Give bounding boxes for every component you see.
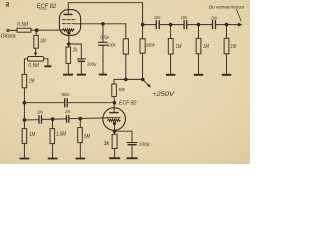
svg-text:5M: 5M xyxy=(84,134,90,140)
wire cathode to 2k xyxy=(67,44,69,47)
svg-text:0.5M: 0.5M xyxy=(17,22,29,28)
svg-text:100μ: 100μ xyxy=(139,142,150,147)
svg-text:10n: 10n xyxy=(154,15,161,20)
label 1M (R4) xyxy=(29,132,35,138)
label 1M (R10) xyxy=(176,44,182,50)
resistor R4 1M lower xyxy=(22,129,27,144)
supply rail +250V xyxy=(114,78,143,80)
svg-text:10n: 10n xyxy=(181,15,188,20)
label ECF 82 (tube V1) xyxy=(37,4,57,10)
wire tone line between C2 and C3 xyxy=(42,118,66,121)
svg-text:1M: 1M xyxy=(176,44,182,50)
wire input to R1 xyxy=(9,29,17,31)
wire rail left end down to 50k xyxy=(113,79,115,84)
paper background xyxy=(0,0,250,164)
label 300k (R9) xyxy=(146,43,155,49)
label 0.5M (R1) xyxy=(17,22,29,28)
label 1M (R12) xyxy=(231,44,237,50)
anode plate V2 xyxy=(109,112,118,113)
resistor R7 2k cathode V1 xyxy=(66,47,71,63)
wire tone line to V2 grid xyxy=(70,117,108,120)
node ladder 1 xyxy=(169,23,172,26)
label ECF 82 (tube V2) xyxy=(119,101,137,107)
underline under ECF 82 label xyxy=(39,8,47,10)
wire ladder line xyxy=(143,24,156,26)
resistor R5 1.5M xyxy=(52,119,54,129)
label 0.5M (P1) xyxy=(28,63,39,69)
input terminal (guitar jack) xyxy=(7,29,9,31)
node cathode V1 xyxy=(68,43,71,46)
wire 50n line right part to V2 anode node xyxy=(68,102,115,104)
label 100u (C9) xyxy=(139,142,150,147)
cathode zigzag V2 xyxy=(108,119,121,121)
suppressor grid V1 (dashed) xyxy=(62,23,75,25)
wire 300k leads xyxy=(142,25,144,39)
resistor R1 0.5M series input xyxy=(17,28,31,32)
node cathode V2 xyxy=(113,130,116,133)
capacitor C9 100u cathode V2 xyxy=(127,142,137,144)
node rail 600k xyxy=(124,78,127,81)
wire 50k to anode node xyxy=(113,97,115,103)
svg-text:Gitara: Gitara xyxy=(1,34,16,40)
wire tone line (grid of V2) xyxy=(24,119,38,121)
resistor R3 1M (pot chain) xyxy=(22,74,27,88)
cathode lead V2 xyxy=(114,124,116,131)
resistor R14 3k cathode V2 xyxy=(114,131,116,134)
tube V2 ECF82 triode envelope xyxy=(103,108,126,131)
label +250V xyxy=(152,92,175,98)
label 600k (R8) xyxy=(107,43,116,49)
capacitor C6 10n xyxy=(155,21,157,29)
svg-text:+250V: +250V xyxy=(152,92,175,98)
svg-text:ECF 82: ECF 82 xyxy=(119,101,137,107)
wire cathode branch to 100u xyxy=(115,131,133,142)
label 100u (C4) xyxy=(87,62,97,67)
ground (3k) xyxy=(109,157,120,159)
svg-text:2n: 2n xyxy=(64,109,70,114)
svg-text:1M: 1M xyxy=(29,132,35,138)
capacitor C2 10n (tone) xyxy=(38,116,40,124)
wire screen V1 to 600k corner xyxy=(75,23,126,25)
resistor R13 50k anode load V2 xyxy=(112,84,117,97)
wire 600k to rail xyxy=(125,54,127,79)
label 50k (R13) xyxy=(118,87,125,93)
wire node to R2 xyxy=(35,30,37,35)
wire 100u to ground xyxy=(131,145,133,157)
svg-text:a: a xyxy=(6,0,10,9)
wire 3k to ground xyxy=(114,149,116,158)
node 5M junction xyxy=(79,117,82,120)
label 10n (C8) xyxy=(211,15,218,20)
label 5M (R6) xyxy=(84,134,90,140)
wire pot right terminal to ground xyxy=(44,59,48,66)
wiper arrow from R2 down to potentiometer xyxy=(35,48,37,53)
svg-text:50k: 50k xyxy=(118,87,125,93)
ground (C5) xyxy=(99,74,107,76)
label 1M (R11) xyxy=(203,44,209,50)
node 1.5M junction xyxy=(51,118,54,121)
node tone line xyxy=(23,119,26,122)
cathode lead V1 xyxy=(68,34,70,45)
ground (C4) xyxy=(77,74,86,76)
capacitor C3 2n xyxy=(66,116,68,123)
ground (pot) xyxy=(44,65,51,67)
node ladder 3 xyxy=(225,23,228,26)
ground (R10) xyxy=(166,74,175,76)
ground (2k) xyxy=(63,74,73,76)
ground (R4) xyxy=(20,158,30,160)
label Gitara xyxy=(1,34,16,40)
wire 100u to ground xyxy=(80,62,82,74)
label 10n (C6) xyxy=(154,15,161,20)
svg-text:1M: 1M xyxy=(203,44,209,50)
label Do wzmacniacza xyxy=(209,5,245,11)
wire ladder seg2 xyxy=(160,24,184,26)
cathode dot V2 xyxy=(113,122,115,124)
label 2k (R7) xyxy=(72,48,78,54)
svg-text:10n: 10n xyxy=(37,110,43,115)
resistor R11 1M ladder xyxy=(198,25,200,39)
wire 50n feedback line left part xyxy=(24,102,64,104)
node anode V2 xyxy=(113,101,116,104)
svg-text:100μ: 100μ xyxy=(87,62,97,67)
node grid junction xyxy=(35,29,38,32)
node ladder start xyxy=(141,23,144,26)
svg-text:1M: 1M xyxy=(29,78,35,84)
svg-text:600k: 600k xyxy=(107,43,116,49)
capacitor C7 10n xyxy=(183,21,185,29)
label 3k (R14) xyxy=(104,141,110,147)
control grid V1 zigzag xyxy=(62,29,74,32)
anode lead V1 up xyxy=(67,3,69,14)
label 0.5u (C5) xyxy=(100,34,109,39)
svg-text:1,5M: 1,5M xyxy=(56,132,67,138)
anode plate V1 xyxy=(64,14,73,16)
capacitor C5 0.5u screen decoupling xyxy=(99,41,107,43)
resistor R10 1M ladder xyxy=(170,25,172,39)
control grid V2 (dashed) xyxy=(107,117,120,119)
svg-text:300k: 300k xyxy=(146,43,155,49)
label 10n (tone) xyxy=(37,110,43,115)
wire pot left terminal down xyxy=(24,59,27,75)
cathode dot V1 xyxy=(68,32,70,34)
svg-text:1M: 1M xyxy=(231,44,237,50)
capacitor C1 50n xyxy=(64,99,66,107)
capacitor C8 10n xyxy=(212,21,214,29)
output arrow head xyxy=(238,23,242,27)
svg-text:3k: 3k xyxy=(104,141,110,147)
resistor R8 600k screen feed xyxy=(123,39,128,54)
label 2M (R2) xyxy=(39,39,45,45)
node ladder 2 xyxy=(197,23,200,26)
svg-text:2k: 2k xyxy=(72,48,78,54)
wire R1 to grid of V1 xyxy=(31,29,62,31)
label 10n (C7) xyxy=(181,15,188,20)
node rail 300k / supply entry xyxy=(141,78,144,81)
node feedback (50n line) xyxy=(23,101,26,104)
wire R4 to ground xyxy=(23,144,25,158)
wire ladder seg4 to output arrow xyxy=(216,24,239,26)
node screen decoupling xyxy=(102,22,105,25)
resistor R12 1M ladder xyxy=(226,25,228,39)
svg-text:10n: 10n xyxy=(211,15,218,20)
wire R5 to ground xyxy=(52,144,54,158)
label 1,5M (R5) xyxy=(56,132,67,138)
ground (R12) xyxy=(222,74,231,76)
ground (R5) xyxy=(48,158,58,160)
svg-text:0.5M: 0.5M xyxy=(28,63,39,69)
callout line from label to output wire xyxy=(236,9,241,21)
svg-text:0.5μ: 0.5μ xyxy=(100,34,109,39)
svg-text:Do wzmacniacza: Do wzmacniacza xyxy=(209,5,245,11)
wire R6 to ground xyxy=(79,143,81,158)
wire 0.5u to ground xyxy=(102,46,104,74)
wire screen node down to 0.5u xyxy=(102,24,104,42)
ground (R6) xyxy=(76,158,86,160)
wire 600k top lead xyxy=(125,24,127,39)
tube V1 ECF82 pentode envelope xyxy=(59,10,80,36)
arrow +250V xyxy=(143,80,149,86)
svg-text:2M: 2M xyxy=(39,39,45,45)
wire R3 down to lower 1M xyxy=(23,88,25,129)
capacitor C4 100u cathode V1 xyxy=(77,58,85,60)
resistor R6 5M xyxy=(79,119,81,128)
resistor R9 300k anode load V1 xyxy=(140,39,145,53)
potentiometer P1 0.5M body xyxy=(28,57,44,62)
wire ladder seg3 xyxy=(187,24,212,26)
anode lead V2 xyxy=(113,103,115,112)
label 1M (R3) xyxy=(29,78,35,84)
label 2n xyxy=(64,109,70,114)
ground (R11) xyxy=(194,74,203,76)
resistor R2 2M xyxy=(34,35,39,48)
wire anode V1 top rail xyxy=(68,3,142,25)
wire cathode branch to 100u xyxy=(69,44,82,59)
wire 2k to ground xyxy=(67,63,69,73)
ground (C9) xyxy=(127,157,138,159)
svg-text:50n: 50n xyxy=(61,92,70,98)
label 50n xyxy=(61,92,70,98)
screen grid V1 (dashed) xyxy=(62,19,75,21)
